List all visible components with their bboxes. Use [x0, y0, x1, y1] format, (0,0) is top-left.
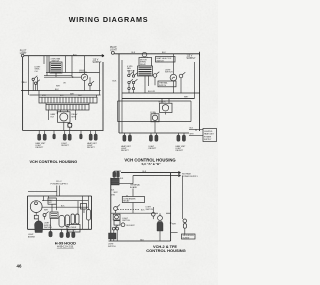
- wire top supply bus: [24, 55, 104, 57]
- svg-text:RECEPT: RECEPT: [61, 145, 70, 147]
- wire stack risers: [127, 189, 133, 214]
- wire risers: [129, 70, 134, 93]
- wire left border: [118, 54, 120, 133]
- svg-text:BLK-WHT: BLK-WHT: [127, 225, 136, 227]
- svg-text:SWITCH: SWITCH: [79, 72, 87, 74]
- wire mid bus 213.2: [111, 212, 158, 214]
- motor junction box: [34, 215, 38, 219]
- wire switch S3 leads: [84, 56, 86, 91]
- wire from board to riser: [119, 176, 133, 184]
- svg-text:SUPPLY: SUPPLY: [187, 58, 196, 60]
- wire mid risers: [44, 196, 57, 229]
- svg-text:MTR: MTR: [72, 116, 77, 118]
- blower switch pins: [71, 214, 74, 224]
- svg-text:HEAT UNIT: HEAT UNIT: [204, 133, 215, 136]
- svg-text:PILOT: PILOT: [20, 50, 27, 52]
- light switch S6: [170, 74, 177, 81]
- wire top supply pair: [121, 173, 181, 176]
- wire right inner vertical: [99, 62, 101, 95]
- svg-text:SWITCH: SWITCH: [146, 209, 154, 211]
- switch S9 upper: [114, 207, 118, 211]
- wire pin stubs: [114, 171, 121, 173]
- wire right vertical: [88, 196, 90, 229]
- light switch S3: [81, 74, 87, 80]
- wire right border: [199, 54, 201, 131]
- node supply tick: [199, 52, 201, 56]
- switch S8 small: [153, 74, 157, 78]
- wire left border: [110, 178, 112, 241]
- svg-text:GRN: GRN: [111, 194, 116, 196]
- svg-text:RECEPT: RECEPT: [149, 148, 158, 150]
- wire mid horizontals: [44, 73, 100, 76]
- svg-text:SWITCH: SWITCH: [165, 72, 173, 74]
- switch box mid: [50, 212, 58, 218]
- svg-text:NO HEAT: NO HEAT: [182, 172, 192, 175]
- svg-text:RELAY: RELAY: [140, 63, 147, 66]
- fan speed switch contacts row1: [128, 74, 130, 76]
- svg-text:BOARD: BOARD: [130, 186, 138, 189]
- receptacle J3 pin B: [94, 134, 97, 140]
- wire dashed to BLK: [118, 208, 140, 210]
- wire bottom drops: [51, 229, 74, 232]
- top receptacle pin A: [113, 172, 116, 178]
- wire right inner vertical: [194, 62, 196, 98]
- wire top supply bus: [114, 53, 199, 55]
- svg-text:WIRING DIAGRAMS: WIRING DIAGRAMS: [69, 15, 149, 24]
- lamp L1 dark blob: [35, 221, 43, 233]
- label blower switch boxed: [67, 225, 80, 233]
- switch S1a: [32, 78, 34, 80]
- node junction: [170, 222, 172, 224]
- bottom connector blobs: [49, 231, 52, 237]
- wire bus 90.5: [21, 90, 101, 92]
- switch S10 box: [113, 214, 120, 220]
- switch S8: [43, 214, 46, 217]
- svg-text:CONTROL HOUSING: CONTROL HOUSING: [146, 248, 185, 253]
- wire right vertical: [170, 173, 172, 241]
- wire bus 95: [30, 94, 101, 96]
- pin P2: [80, 134, 83, 139]
- wire switch risers: [33, 77, 37, 91]
- wire drops: [114, 233, 117, 241]
- wire bus 98.4: [122, 97, 195, 99]
- wire to heat unit supply: [189, 129, 203, 135]
- svg-text:SWITCH: SWITCH: [159, 85, 167, 87]
- wire inner left vertical: [27, 56, 29, 95]
- svg-text:SUPPLY: SUPPLY: [204, 139, 212, 141]
- svg-text:POWER: POWER: [204, 136, 212, 138]
- wire C1 leads: [154, 113, 156, 134]
- wire bottom border: [23, 130, 104, 132]
- motor relay K3: [160, 103, 173, 112]
- svg-text:BLK: BLK: [23, 82, 27, 84]
- receptacle block top: [48, 198, 56, 204]
- wire supply branch left: [28, 190, 57, 192]
- svg-text:115 V: 115 V: [187, 55, 193, 57]
- svg-text:PILOT: PILOT: [110, 47, 117, 49]
- heat unit supply box: [203, 129, 217, 142]
- svg-text:BLK: BLK: [113, 81, 117, 83]
- relay K1: [58, 112, 71, 123]
- svg-text:115 V: 115 V: [93, 60, 99, 62]
- node supply ticks: [178, 172, 180, 177]
- wire TB risers: [39, 91, 97, 121]
- wire mid horizontal: [44, 76, 81, 78]
- svg-text:MTR: MTR: [42, 95, 47, 97]
- wire bottom bus: [109, 240, 171, 242]
- push button switch S2: [50, 62, 62, 73]
- wire outer box bottom: [28, 228, 92, 230]
- svg-text:RECEPT: RECEPT: [121, 150, 130, 152]
- receptacle J2 pin A: [63, 134, 66, 140]
- wire switch block risers: [44, 56, 72, 77]
- wire S6 leads: [172, 54, 174, 93]
- svg-text:46: 46: [17, 263, 22, 268]
- pin P1: [53, 134, 56, 139]
- pilot light PL2: [111, 51, 114, 54]
- switch S4 small: [89, 83, 92, 86]
- motor M2 circle: [158, 216, 163, 221]
- receptacle J1 pin B: [43, 134, 46, 140]
- svg-text:ASSEM.: ASSEM.: [28, 235, 36, 238]
- lower switch cluster: [112, 227, 115, 230]
- svg-text:RELAY: RELAY: [123, 200, 130, 203]
- wire bottom border: [119, 132, 189, 134]
- blower motor M1: [30, 201, 42, 213]
- small relay box right: [81, 204, 87, 210]
- receptacle J6 pin A: [177, 135, 180, 141]
- relay K2 body: [139, 58, 152, 67]
- condenser relay box: [122, 197, 144, 203]
- wire right verticals: [78, 196, 84, 229]
- svg-text:RECEPT: RECEPT: [176, 150, 185, 152]
- wire drops to receptacles: [125, 133, 185, 136]
- inner box around relay cluster: [118, 101, 192, 122]
- relay K2 top circle: [142, 52, 147, 57]
- receptacle J4 pin A: [123, 135, 126, 141]
- terminal board TB2: [46, 105, 89, 111]
- svg-text:SWITCH: SWITCH: [122, 220, 130, 222]
- receptacle J4 pin B: [128, 135, 131, 141]
- small rect below: [114, 221, 120, 225]
- terminal board TB1: [39, 97, 97, 103]
- oblong 2: [65, 215, 69, 227]
- wire supply drop: [57, 186, 60, 197]
- wire bus 93: [122, 92, 200, 94]
- wire bus 210: [42, 206, 89, 208]
- wire right vertical 2: [181, 176, 183, 220]
- right component pin: [87, 210, 91, 221]
- wire M2 leads: [159, 213, 161, 241]
- thermal protector TP1: [68, 123, 72, 127]
- capacitor oblong center: [59, 216, 65, 228]
- fan speed switch contacts row2: [128, 81, 130, 83]
- svg-text:H-99-12 H.S.B.: H-99-12 H.S.B.: [57, 246, 74, 249]
- receptacle J5 pin A: [149, 135, 152, 141]
- wire inner left vertical: [121, 60, 123, 133]
- wire bus 200.7: [42, 200, 88, 202]
- push button switch S5: [138, 66, 153, 76]
- wire left border: [22, 57, 24, 130]
- junction tick left border: [22, 81, 24, 83]
- svg-text:SUPPLY: SUPPLY: [93, 62, 102, 64]
- wire relay leads: [61, 110, 68, 131]
- heat switch boxed label: [156, 57, 176, 63]
- receptacle J3 pin A: [89, 134, 92, 140]
- svg-text:SCREW: SCREW: [183, 237, 190, 239]
- receptacle J5 pin B: [155, 135, 158, 141]
- fan speed switch contacts row3: [128, 87, 130, 89]
- switch S9r small: [179, 74, 183, 78]
- light fixture block bottom left: [109, 233, 117, 239]
- wire lamp lead: [38, 219, 40, 221]
- receptacle J1 pin A: [38, 134, 41, 140]
- svg-text:RECEPT: RECEPT: [36, 147, 45, 149]
- switch S1b: [35, 82, 37, 84]
- svg-text:RECEPT: RECEPT: [87, 147, 96, 149]
- svg-text:VCH CONTROL HOUSING: VCH CONTROL HOUSING: [29, 159, 77, 164]
- node supply tick: [102, 55, 104, 57]
- wire S5 leads: [141, 57, 149, 93]
- top receptacle pin B: [117, 172, 120, 178]
- svg-text:POWER SUPPLY: POWER SUPPLY: [51, 184, 69, 186]
- wire motor stem: [35, 213, 37, 216]
- wire outer box left: [27, 196, 29, 229]
- receptacle J2 pin B: [68, 134, 71, 140]
- receptacle J6 pin B: [182, 135, 185, 141]
- wire outer box right: [91, 196, 93, 229]
- motor M2 solenoid dark: [157, 222, 163, 232]
- svg-text:SWITCH: SWITCH: [127, 70, 135, 72]
- svg-text:WHT-BLK: WHT-BLK: [44, 227, 53, 229]
- thermal switch boxed label: [158, 81, 176, 87]
- pilot light PL1: [21, 54, 24, 57]
- wire outer box top: [28, 195, 92, 197]
- svg-text:SWITCH: SWITCH: [68, 229, 76, 231]
- svg-text:S,C "A" & "B": S,C "A" & "B": [142, 162, 162, 166]
- node junction dot: [72, 77, 73, 78]
- grounding screw box: [182, 234, 196, 239]
- svg-text:SWITCH: SWITCH: [157, 60, 165, 62]
- wire K3 leads: [162, 98, 169, 114]
- switch right: [183, 219, 187, 223]
- svg-text:SWITCH: SWITCH: [108, 246, 116, 248]
- switch circle small: [121, 223, 125, 227]
- condenser C1: [151, 114, 159, 122]
- wire drops to receptacles: [39, 131, 95, 135]
- terminal board dark block: [111, 178, 119, 185]
- switch S11: [152, 213, 156, 217]
- wire right border: [102, 62, 104, 131]
- svg-text:POWER SUPPLY: POWER SUPPLY: [182, 176, 199, 178]
- svg-text:LIGHTED: LIGHTED: [204, 131, 213, 133]
